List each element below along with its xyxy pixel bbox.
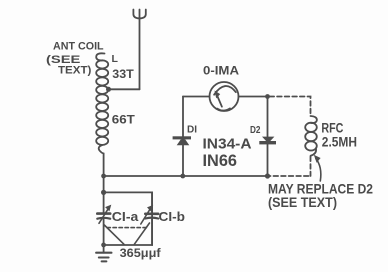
svg-text:33T: 33T — [112, 69, 134, 81]
svg-text:IN34-A: IN34-A — [203, 135, 252, 152]
svg-text:2.5MH: 2.5MH — [322, 134, 357, 149]
svg-text:ANT COIL: ANT COIL — [53, 41, 104, 53]
svg-text:TEXT): TEXT) — [58, 65, 92, 77]
svg-text:DI: DI — [187, 124, 197, 136]
svg-text:D2: D2 — [250, 124, 261, 136]
svg-text:(SEE TEXT): (SEE TEXT) — [268, 195, 337, 210]
svg-text:365μμf: 365μμf — [120, 246, 162, 260]
svg-text:CI-a: CI-a — [112, 209, 139, 224]
svg-text:66T: 66T — [112, 113, 136, 127]
svg-text:MAY REPLACE D2: MAY REPLACE D2 — [268, 180, 373, 196]
svg-text:L: L — [112, 53, 119, 65]
svg-text:0-IMA: 0-IMA — [203, 65, 239, 77]
svg-text:CI-b: CI-b — [159, 209, 186, 224]
svg-text:IN66: IN66 — [203, 152, 238, 170]
